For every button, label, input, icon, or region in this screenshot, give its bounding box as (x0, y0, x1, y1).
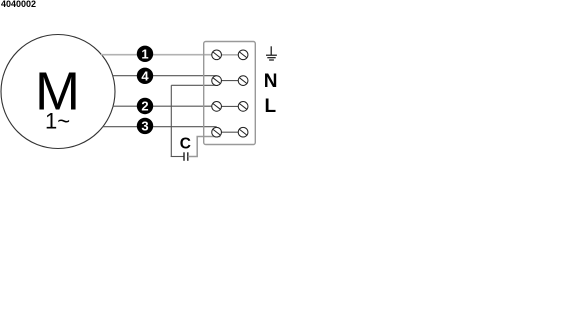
wire: capacitor right lead to terminal row 4 (188, 137, 221, 157)
svg-text:N: N (264, 71, 278, 92)
ground (earth) symbol (266, 46, 277, 60)
svg-text:4: 4 (141, 69, 149, 84)
wire 4 (motor to terminal row 2) (112, 75, 217, 77)
svg-text:1: 1 (141, 47, 148, 62)
screw terminal row 1 right (earth) (238, 50, 248, 60)
node marker 3 (motor lead 3) (137, 118, 153, 134)
screw terminal row 2 left (N) (212, 76, 222, 86)
wire: capacitor branch from terminal row 2 (horizontal) (171, 84, 218, 86)
wire 3 (motor to terminal row 4) (103, 126, 217, 128)
jumper wire row 4 (221, 131, 238, 133)
node marker 4 (motor lead 4) (137, 68, 153, 84)
screw terminal row 3 left (L) (212, 102, 222, 112)
svg-text:1~: 1~ (45, 109, 70, 134)
screw terminal row 1 left (earth) (212, 50, 222, 60)
svg-text:2: 2 (141, 99, 148, 114)
wire: capacitor branch vertical down to capacitor (170, 85, 172, 157)
svg-text:4040002: 4040002 (1, 0, 36, 9)
svg-text:L: L (264, 96, 276, 117)
screw terminal row 4 left (212, 127, 222, 137)
wire: capacitor left lead (171, 156, 184, 158)
wire 1 (motor to terminal row 1) (101, 54, 212, 56)
svg-text:C: C (180, 136, 191, 153)
jumper wire row 1 (221, 54, 238, 56)
motor M 1~ (single-phase motor) (1, 35, 115, 149)
svg-text:3: 3 (141, 119, 148, 134)
jumper wire row 3 (221, 105, 238, 107)
wire 2 (motor to terminal row 3) (113, 105, 212, 107)
jumper wire row 2 (221, 80, 238, 82)
capacitor C (184, 152, 188, 161)
screw terminal row 4 right (238, 127, 248, 137)
screw terminal row 2 right (N) (238, 76, 248, 86)
node marker 1 (motor lead 1) (137, 46, 153, 62)
screw terminal row 3 right (L) (238, 102, 248, 112)
node marker 2 (motor lead 2) (137, 98, 153, 114)
terminal block TB1 (204, 42, 256, 145)
